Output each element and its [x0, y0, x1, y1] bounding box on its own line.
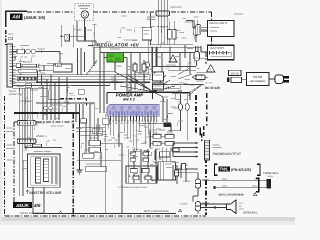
svg-text:!: !	[173, 58, 174, 61]
wires to tweeter	[203, 180, 264, 182]
row marks y=56	[13, 55, 18, 57]
section border bottom (dash-dot)	[5, 215, 206, 217]
svg-text:BACK LIGHT: BACK LIGHT	[210, 21, 228, 25]
section label TWL (PN 4/5,5/5)	[214, 164, 217, 175]
transistor Q601	[195, 179, 200, 188]
svg-text:6W X 2: 6W X 2	[123, 98, 135, 102]
section border AM corner bracket	[5, 10, 27, 12]
section label AM (A8UK 1/6)	[10, 14, 23, 20]
transistor Q (pill) mid right	[194, 52, 200, 61]
connector WM501-1	[17, 139, 36, 144]
junction box J2	[78, 89, 84, 94]
box BACK LIGHT	[208, 20, 234, 36]
wires below power amp IC	[109, 122, 111, 136]
svg-text:(4P)17C3: (4P)17C3	[170, 6, 182, 9]
svg-text:4Ω: 4Ω	[239, 205, 242, 208]
left edge stubs	[7, 128, 13, 129]
master volume block VR501	[28, 154, 61, 188]
svg-text:(A8UK 1/6): (A8UK 1/6)	[24, 15, 46, 20]
svg-text:DC IN 12V: DC IN 12V	[205, 86, 221, 90]
svg-text:PA-5D: PA-5D	[253, 75, 263, 79]
wire fan node	[128, 75, 153, 92]
svg-text:TWEETER L: TWEETER L	[263, 171, 279, 175]
connector 2P to back light	[196, 25, 201, 35]
page edge shading	[0, 217, 295, 221]
svg-text:8ohm: 8ohm	[268, 175, 274, 178]
svg-text:4/6: 4/6	[33, 203, 41, 208]
thick ground bus	[14, 112, 80, 114]
section border AMJK left (dash-dot)	[13, 122, 15, 205]
signal row 1 y=51.5	[13, 51, 61, 53]
DC-IN label box	[229, 70, 241, 75]
svg-text:MASTER VOLUME: MASTER VOLUME	[30, 191, 63, 195]
svg-text:!: !	[210, 67, 211, 71]
svg-text:WM501: WM501	[37, 121, 46, 124]
wire drops from bus to connectors	[42, 86, 44, 121]
svg-text:DC-IN: DC-IN	[231, 71, 239, 75]
box BATTERY	[208, 45, 234, 60]
tiny value labels (texture)	[39, 72, 45, 75]
box PA-5D AC adaptor	[246, 73, 269, 86]
svg-text:28CC1-2001000284A: 28CC1-2001000284A	[144, 210, 169, 213]
section border AM top (dash-dot)	[27, 11, 74, 13]
DC jack	[196, 75, 205, 80]
row y=85.5 small box	[25, 84, 31, 87]
warning triangle DC	[207, 65, 215, 72]
wire x=94.4 with tick	[93, 25, 95, 47]
section border right (dash-dot)	[211, 12, 213, 20]
svg-text:AM: AM	[11, 15, 21, 21]
connector CN201	[7, 44, 13, 87]
bracket speaker group	[256, 178, 259, 192]
top connector (4P)17C3	[156, 11, 170, 16]
svg-text:LP distribution system circuit: LP distribution system circuit	[118, 186, 147, 189]
LPF block	[128, 149, 130, 183]
woofer L	[227, 200, 237, 214]
svg-text:sc4052: sc4052	[180, 203, 188, 206]
small parts cluster	[81, 119, 87, 123]
svg-text:REGULATOR +6V: REGULATOR +6V	[97, 42, 140, 47]
section border left (dash-dot)	[5, 30, 7, 47]
box right of rows	[53, 64, 72, 72]
dashed box with motor M	[75, 4, 94, 21]
svg-text:PHONES/OUTPUT: PHONES/OUTPUT	[213, 152, 241, 156]
component box 17C5 top-middle	[142, 28, 151, 40]
label MASTER VOLUME	[26, 190, 29, 194]
power amp box	[107, 92, 190, 94]
svg-text:WOOFER L: WOOFER L	[243, 211, 258, 215]
signal row 3 y=70.7	[13, 70, 54, 72]
warning triangle mid	[169, 55, 177, 62]
svg-text:TWL: TWL	[220, 167, 230, 172]
AC plug	[275, 75, 283, 84]
resistors pair mid-top	[168, 30, 171, 40]
svg-text:WM501-1: WM501-1	[36, 135, 47, 138]
svg-text:28CC1-2001000284B: 28CC1-2001000284B	[218, 194, 243, 197]
svg-text:TL-868: TL-868	[74, 29, 82, 32]
svg-text:BATTERY: BATTERY	[211, 46, 225, 50]
component box with X top-left area	[65, 34, 70, 41]
section label AMJK 4/6	[13, 202, 32, 208]
bus wires	[13, 74, 151, 76]
DC-IN connector	[227, 78, 230, 83]
svg-text:(AC Adaptor): (AC Adaptor)	[250, 80, 266, 83]
section border AMJK horizontal (dash-dot)	[14, 121, 17, 123]
signal row 2 y=65	[13, 64, 57, 66]
boxes TL502	[153, 72, 164, 81]
svg-text:SP L: SP L	[239, 202, 244, 205]
svg-text:sc4052: sc4052	[183, 180, 191, 183]
row y=78.2 dark-bar filter box	[17, 77, 37, 81]
transistor Q (pill) top right	[193, 27, 199, 36]
regulator IC IC501 (green)	[110, 49, 120, 50]
row y=88	[13, 87, 49, 89]
svg-text:DC--DC: DC--DC	[205, 82, 213, 85]
ground symbol	[77, 169, 83, 171]
phones jack J601	[205, 140, 210, 160]
transistor Q602	[195, 202, 200, 211]
connector WM501	[17, 121, 36, 126]
wire x=85.5 trimmer	[85, 27, 87, 41]
svg-text:7L-868: 7L-868	[146, 68, 154, 71]
section border mid vertical (dash-dot)	[72, 114, 74, 216]
svg-text:AMJK: AMJK	[15, 203, 30, 208]
electrolytic caps C612 C613	[172, 93, 190, 95]
power amp IC IC601 (purple)	[107, 105, 159, 117]
svg-text:(PN 4/5,5/5): (PN 4/5,5/5)	[231, 168, 252, 172]
